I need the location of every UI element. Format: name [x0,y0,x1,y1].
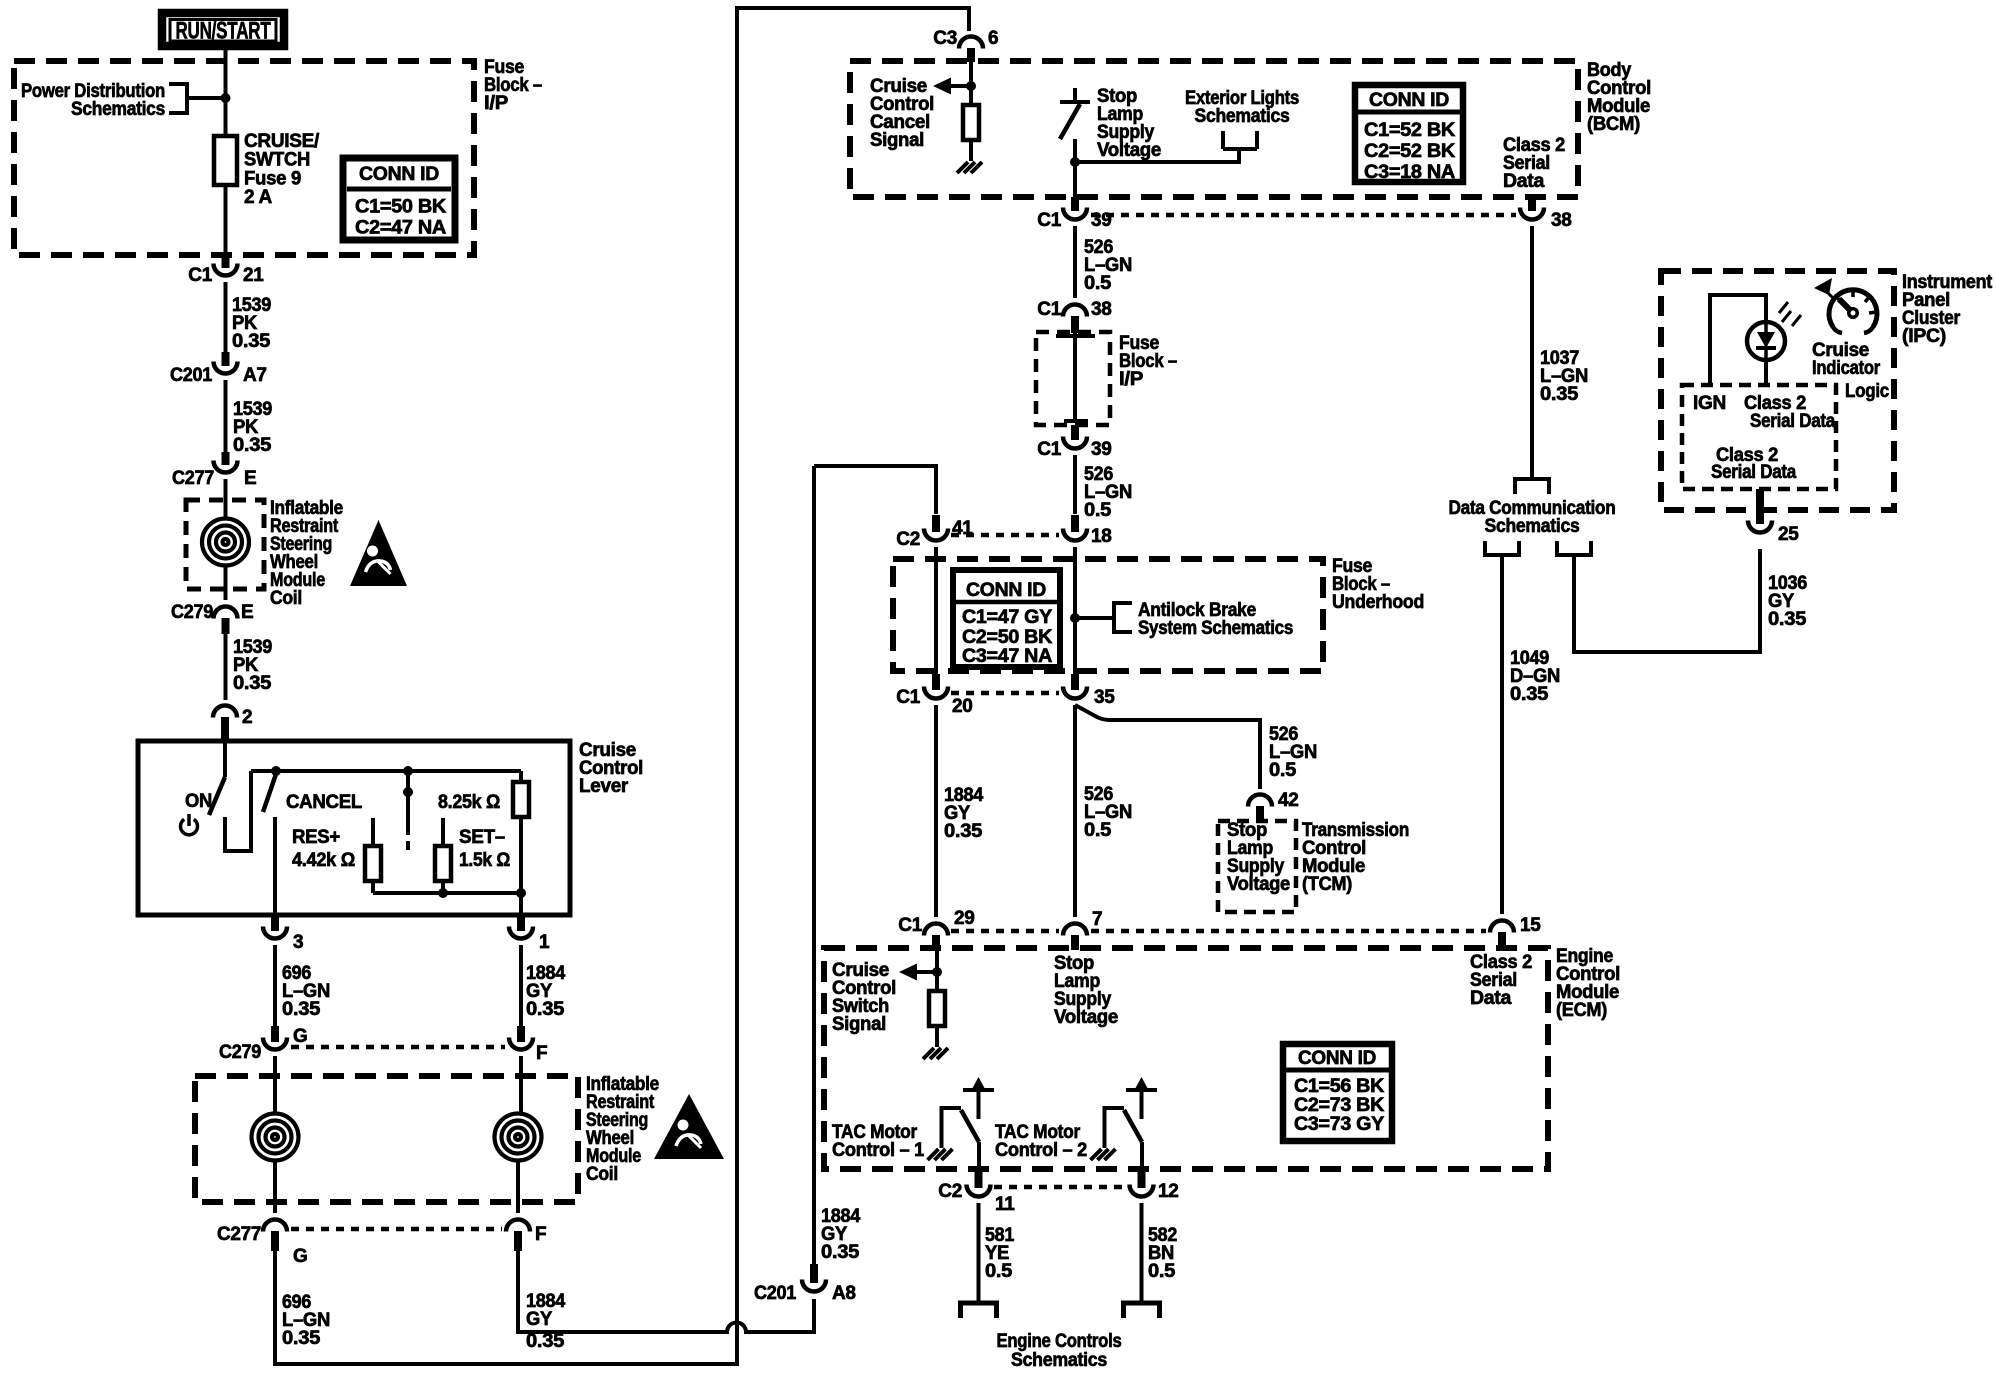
wire C3-6 to cancel node [969,62,973,105]
svg-text:C3=73 GY: C3=73 GY [1294,1114,1385,1135]
connector BCM pin 38 [1520,208,1544,220]
wire 696 L-GN segment 1 [273,945,277,1026]
svg-text:0.35: 0.35 [821,1242,860,1263]
wire RES+ bottom [371,881,375,893]
connector C279 pin G [263,1038,287,1050]
ground ECM switch signal [923,1048,948,1059]
svg-text:0.35: 0.35 [1540,384,1579,405]
svg-text:E: E [241,602,253,623]
switch CANCEL lever [263,774,276,812]
connector C2 pin 41 [924,529,948,541]
svg-text:Serial Data: Serial Data [1750,411,1836,432]
body control module (BCM) box [850,61,1578,197]
svg-text:2: 2 [242,707,252,728]
wire wiper pole [406,771,410,835]
wire TAC1 ground leg [942,1108,962,1148]
svg-text:C3: C3 [933,28,957,49]
interface line ECM top a [951,929,1059,934]
connector C279 pin E [214,607,238,619]
svg-text:G: G [293,1246,307,1267]
svg-text:A8: A8 [832,1283,856,1304]
fuse block I/P pass-through box [1036,332,1110,425]
node antilock brake tap [1070,613,1080,623]
svg-text:C1: C1 [188,265,212,286]
svg-text:C3=47 NA: C3=47 NA [962,646,1053,667]
stub C3-6 [967,48,975,62]
connector C1 pin stub [222,255,230,268]
svg-text:I/P: I/P [1119,369,1144,390]
svg-text:8.25k Ω: 8.25k Ω [438,792,500,813]
connector C279 stub (E) [222,618,230,634]
svg-text:C2: C2 [896,529,920,550]
RUN/START power feed box [162,13,284,46]
stub IPC pin 25 [1756,489,1764,524]
connector C1 pin 21 [214,264,238,276]
stub C2-41 [932,515,940,532]
svg-text:35: 35 [1094,687,1115,708]
cruise indicator logic inner box [1682,385,1836,489]
svg-text:15: 15 [1520,915,1541,936]
svg-text:1: 1 [539,932,550,953]
svg-text:29: 29 [954,908,975,929]
svg-text:Control – 1: Control – 1 [832,1140,925,1161]
svg-text:7: 7 [1092,909,1102,930]
svg-text:A7: A7 [243,365,267,386]
wire 1539 PK segment 1 [224,282,228,352]
wire C2-41 to C1-20 [934,547,938,674]
svg-text:CONN ID: CONN ID [1369,90,1449,111]
node bottom bus junction 2 [516,888,526,898]
fuse block underhood box [893,559,1323,671]
svg-text:(BCM): (BCM) [1587,114,1640,135]
interface line C279 [291,1045,505,1050]
bracket data communication top [1515,479,1549,494]
svg-text:(IPC): (IPC) [1902,326,1946,347]
svg-text:39: 39 [1091,439,1112,460]
wire 18 to 35 [1073,547,1077,674]
stub BCM C1-39 [1071,197,1079,211]
svg-text:F: F [535,1224,546,1245]
node cancel pivot [271,766,281,776]
svg-text:Voltage: Voltage [1054,1007,1118,1028]
stub C201 A8 [810,1264,818,1283]
wire 526 L-GN branch to TCM [1075,705,1260,789]
CONN ID table (BCM) [1355,85,1463,182]
svg-text:11: 11 [995,1194,1015,1215]
ground TAC2 [1091,1149,1116,1160]
svg-text:0.35: 0.35 [1510,684,1549,705]
connector lever pin 1 [509,927,533,939]
node power feed junction [221,93,231,103]
wire 8.25k to bottom bus [519,817,523,893]
connector C277 pin F [506,1220,530,1232]
wire fuse to C1 connector [224,185,228,255]
arrow cruise control cancel signal [947,84,971,88]
svg-text:C201: C201 [170,365,213,386]
node wiper top [403,766,413,776]
connector C201 pin A7 [214,362,238,374]
wire 1884 GY to ECM C1-29 [934,705,938,917]
SIR steering wheel module coil 1 [202,519,249,566]
bracket antilock brake system [1075,603,1132,632]
connector IPC pin 25 [1748,521,1772,533]
wiper open contact tick [406,841,410,850]
wire 1884 GY riser [812,466,816,1264]
svg-text:20: 20 [952,696,973,717]
wire TAC2 to pin 12 [1140,1142,1144,1171]
stub C277 G [271,1231,279,1251]
inflatable restraint coil module box 2 [195,1076,578,1202]
stub BCM pin 38 [1528,197,1536,211]
wire 581 YE [977,1203,981,1302]
stub pin 35 [1071,674,1079,690]
svg-text:C1: C1 [1037,210,1061,231]
svg-text:0.35: 0.35 [233,435,272,456]
stub C279 F [517,1026,525,1042]
svg-text:3: 3 [293,932,303,953]
resistor 8.25k [513,782,529,817]
connector C277 stub (E) [222,452,230,465]
fuse block tick bottom [1064,419,1088,423]
wire 1539 PK segment 3 [224,634,228,700]
svg-text:C2: C2 [938,1181,962,1202]
svg-text:C1: C1 [898,915,922,936]
fuse block tick top [1056,334,1095,338]
svg-text:0.5: 0.5 [985,1261,1013,1282]
resistor SET- 1.5k [435,846,451,881]
wire RES+ top [371,818,375,846]
connector C279 pin F [509,1038,533,1050]
wire resistor to ground [969,140,973,161]
switch TAC motor 1 lever [961,1110,979,1142]
wire to ON switch [223,741,227,777]
svg-text:25: 25 [1778,524,1799,545]
svg-text:Indicator: Indicator [1812,358,1881,379]
wire 526 L-GN segment 1 [1073,226,1077,298]
switch TAC motor 2 lever [1124,1110,1142,1142]
svg-text:F: F [536,1043,547,1064]
wire from coil 2b [516,1161,520,1213]
svg-text:0.5: 0.5 [1084,820,1112,841]
stub C1-29 [932,935,940,950]
resistor RES+ 4.42k [365,846,381,881]
wire into coil module 2 right [519,1056,523,1080]
stop lamp switch (BCM) [1060,88,1090,102]
engine control module (ECM) box [824,948,1548,1169]
arrow cruise control switch signal [913,970,937,974]
stub C1-39 lower [1071,425,1079,440]
svg-text:0.35: 0.35 [944,821,983,842]
svg-text:C201: C201 [754,1283,797,1304]
connector pin 35 [1063,687,1087,699]
wire 526 L-GN to ECM 7 [1073,705,1077,917]
gauge icon (speedometer) [1829,290,1877,327]
interface line C277 [291,1227,502,1232]
ground BCM internal [957,162,982,173]
stub pin 7 [1071,935,1079,950]
interface line BCM [1091,213,1516,218]
wire resistor to ground (ECM) [935,1026,939,1047]
wire 1049 D-GN to ECM 15 [1500,555,1504,914]
svg-text:Schematics: Schematics [71,99,165,120]
svg-text:0.35: 0.35 [526,1331,565,1352]
svg-text:CONN ID: CONN ID [359,164,439,185]
svg-text:CANCEL: CANCEL [286,792,363,813]
connector ECM pin 12 [1130,1185,1154,1197]
svg-text:4.42k Ω: 4.42k Ω [292,850,355,871]
svg-text:Coil: Coil [270,588,302,609]
svg-text:Data: Data [1503,171,1545,192]
stub C277 F [514,1231,522,1251]
svg-text:I/P: I/P [484,93,509,114]
svg-text:1.5k Ω: 1.5k Ω [459,850,510,871]
svg-text:C1=52 BK: C1=52 BK [1364,120,1456,141]
LED light rays [1779,302,1801,326]
svg-text:2 A: 2 A [244,187,273,208]
wire 1884 GY to C201 A8 (with hop) [518,1251,814,1332]
svg-text:12: 12 [1158,1181,1179,1202]
svg-text:(TCM): (TCM) [1302,874,1352,895]
svg-text:21: 21 [243,265,264,286]
svg-text:C1=47 GY: C1=47 GY [962,607,1053,628]
svg-text:C2=52 BK: C2=52 BK [1364,141,1456,162]
svg-text:C279: C279 [219,1042,261,1063]
svg-text:0.35: 0.35 [282,1328,321,1349]
svg-text:0.35: 0.35 [526,999,565,1020]
connector pin 18 [1063,529,1087,541]
svg-text:CONN ID: CONN ID [966,580,1046,601]
wire ON switch output U-bend [225,771,251,851]
bracket data comm output left [1485,541,1519,555]
connector ECM pin 7 [1063,924,1087,936]
ground TAC1 [928,1149,953,1160]
svg-text:0.5: 0.5 [1084,500,1112,521]
svg-text:0.5: 0.5 [1148,1261,1176,1282]
CONN ID table (fuse block I/P) [343,158,455,240]
svg-text:0.35: 0.35 [282,999,321,1020]
svg-text:0.35: 0.35 [232,331,271,352]
svg-text:0.5: 0.5 [1084,273,1112,294]
svg-text:Signal: Signal [832,1014,886,1035]
svg-text:6: 6 [988,28,998,49]
svg-text:C1: C1 [896,687,920,708]
stub pin 12 [1138,1171,1146,1188]
SIR steering wheel module coil 2b [495,1114,542,1161]
wire TAC1 to C2-11 [977,1142,981,1171]
instrument panel cluster (IPC) box [1661,271,1894,510]
wire 696 loop to BCM C3 [275,8,969,1364]
svg-text:Underhood: Underhood [1332,592,1424,613]
connector C3 pin 6 [959,37,983,49]
resistor BCM cancel pull-up [963,105,979,140]
fuse CRUISE/SWTCH Fuse 9 2A [214,136,237,185]
wire cancel output to pin 3 [273,817,277,915]
connector ECM C2 pin 11 [967,1185,991,1197]
stub pin 15 [1498,932,1506,950]
svg-text:C1: C1 [1037,299,1061,320]
wire internal bottom bus [373,891,521,895]
svg-text:CONN ID: CONN ID [1298,1048,1376,1069]
svg-text:G: G [293,1026,307,1047]
svg-text:C1: C1 [1037,439,1061,460]
LED cruise indicator [1747,322,1785,360]
stub C2-11 [975,1171,983,1188]
svg-text:GY: GY [526,1309,553,1330]
connector C1 pin 38 (fuse block) [1063,305,1087,317]
svg-text:C279: C279 [171,602,213,623]
connector lever pin 3 [263,927,287,939]
wire 526 L-GN segment 2 [1073,455,1077,514]
svg-text:IGN: IGN [1693,393,1726,414]
connector C277 pin G [263,1220,287,1232]
wire SET- bottom [441,881,445,893]
TAC motor control 1 contact bar [963,1088,994,1092]
wire 582 BN [1140,1203,1144,1302]
svg-text:C2=73 BK: C2=73 BK [1294,1095,1385,1116]
connector C277 pin E [214,461,238,473]
connector C201 pin A8 [802,1280,826,1292]
svg-text:Schematics: Schematics [1485,516,1580,537]
switch ON lever [209,777,225,815]
wire TAC1 contact stem [977,1090,981,1119]
svg-text:C2=50 BK: C2=50 BK [962,627,1053,648]
svg-text:Engine Controls: Engine Controls [997,1331,1122,1352]
svg-text:RUN/START: RUN/START [176,18,271,45]
connector cruise lever pin 2 [213,706,237,718]
wire IGN to LED [1710,295,1766,385]
svg-text:C2=47 NA: C2=47 NA [355,218,447,239]
node wiper mid [403,787,413,797]
svg-text:Control – 2: Control – 2 [995,1140,1087,1161]
svg-text:Lever: Lever [579,776,629,797]
svg-text:SET–: SET– [459,827,505,848]
connector TCM pin 42 [1248,795,1272,807]
svg-text:System Schematics: System Schematics [1138,618,1293,639]
interface line ECM bottom [994,1185,1126,1190]
wire from coil 2a [273,1161,277,1213]
terminal engine controls right [1124,1303,1160,1318]
node switch signal [932,967,942,977]
wire RUN/START to fuse [224,50,228,136]
stub pin 18 [1071,515,1079,532]
interface line fuse block underhood top [951,533,1059,538]
connector C1 pin 39 (lower) [1063,437,1087,449]
wire out of SIR coil 1 [224,566,228,600]
svg-text:C1=50 BK: C1=50 BK [355,197,447,218]
wire into coil module 2 left [273,1056,277,1080]
inflatable restraint coil module box 1 [186,500,264,589]
connector C1 pin 20 [924,687,948,699]
svg-text:42: 42 [1278,790,1299,811]
wire to coil 2a [273,1080,277,1113]
svg-text:(ECM): (ECM) [1556,1000,1607,1021]
svg-text:0.5: 0.5 [1269,760,1297,781]
wire 1884 GY to C2-41 [814,466,936,514]
wire into SIR coil 1 [224,479,228,518]
wire LED to logic box [1764,360,1768,385]
wire C1-29 into ECM [935,950,939,991]
interface line ECM top b [1091,929,1486,934]
terminal engine controls left [961,1303,997,1318]
cruise control lever box [138,741,570,915]
svg-text:E: E [244,468,256,489]
svg-text:C1=56 BK: C1=56 BK [1294,1076,1385,1097]
wire 1884 GY segment 1 [519,945,523,1026]
CONN ID table (fuse block underhood) [953,570,1060,667]
wire bus to 8.25k resistor [519,771,523,782]
wire 1037 L-GN class2 [1530,226,1534,478]
svg-text:38: 38 [1551,210,1572,231]
svg-text:Voltage: Voltage [1227,874,1290,895]
stub C279 G [271,1026,279,1042]
wire to pin 1 [519,893,523,915]
SIR steering wheel module coil 2a [252,1114,299,1161]
svg-text:0.35: 0.35 [233,673,272,694]
svg-text:RES+: RES+ [292,827,340,848]
bracket exterior lights schematics [1075,131,1257,162]
svg-text:ON: ON [185,791,212,812]
airbag warning triangle 1 [350,520,407,586]
svg-text:C277: C277 [172,468,214,489]
node cancel signal [966,81,976,91]
node bottom bus junction 1 [438,888,448,898]
TCM stop lamp supply box [1218,821,1296,912]
CONN ID table (ECM) [1283,1044,1392,1141]
connector BCM C1 pin 39 [1063,208,1087,220]
connector ECM C1 pin 29 [924,924,948,936]
stub pin 42 [1256,806,1264,822]
svg-text:Serial Data: Serial Data [1711,462,1797,483]
svg-text:Schematics: Schematics [1011,1350,1107,1371]
gauge flag arrow [1814,278,1832,295]
stub C1-20 [932,674,940,690]
bracket data comm output right [1557,541,1591,555]
svg-text:Data: Data [1470,988,1512,1009]
svg-text:Schematics: Schematics [1195,106,1290,127]
connector ECM pin 15 [1490,921,1514,933]
svg-text:C3=18 NA: C3=18 NA [1364,162,1456,183]
TAC motor control 2 contact bar [1126,1088,1157,1092]
wire TAC2 ground leg [1105,1108,1125,1148]
wire SET- top [441,818,445,846]
resistor ECM switch signal pull-up [929,991,945,1026]
node stop lamp branch [1070,157,1080,167]
fuse block I/P module box [14,61,474,255]
svg-text:18: 18 [1091,526,1112,547]
svg-text:38: 38 [1091,299,1112,320]
wire through fuse block I/P [1073,333,1077,422]
svg-text:Voltage: Voltage [1097,140,1161,161]
interface line fuse block underhood bottom [951,691,1059,696]
stub C1-38 [1071,316,1079,333]
stub lever pin 3 [271,915,279,931]
wire 1539 PK segment 2 [224,380,228,452]
wire 1036 GY to IPC 25 [1574,549,1760,652]
stub into cruise lever [221,717,229,741]
airbag warning triangle 2 [654,1094,724,1159]
wire stop lamp supply [1073,139,1077,197]
wire TAC2 contact stem [1140,1090,1144,1119]
svg-text:Signal: Signal [870,130,924,151]
svg-text:Logic: Logic [1845,381,1890,402]
bracket to power distribution [169,84,221,113]
power symbol icon [181,819,198,835]
wire to coil 2b [519,1080,523,1113]
wire internal top bus [251,769,521,773]
connector C201 stub [222,352,230,366]
svg-text:Coil: Coil [586,1164,618,1185]
stub lever pin 1 [517,915,525,931]
